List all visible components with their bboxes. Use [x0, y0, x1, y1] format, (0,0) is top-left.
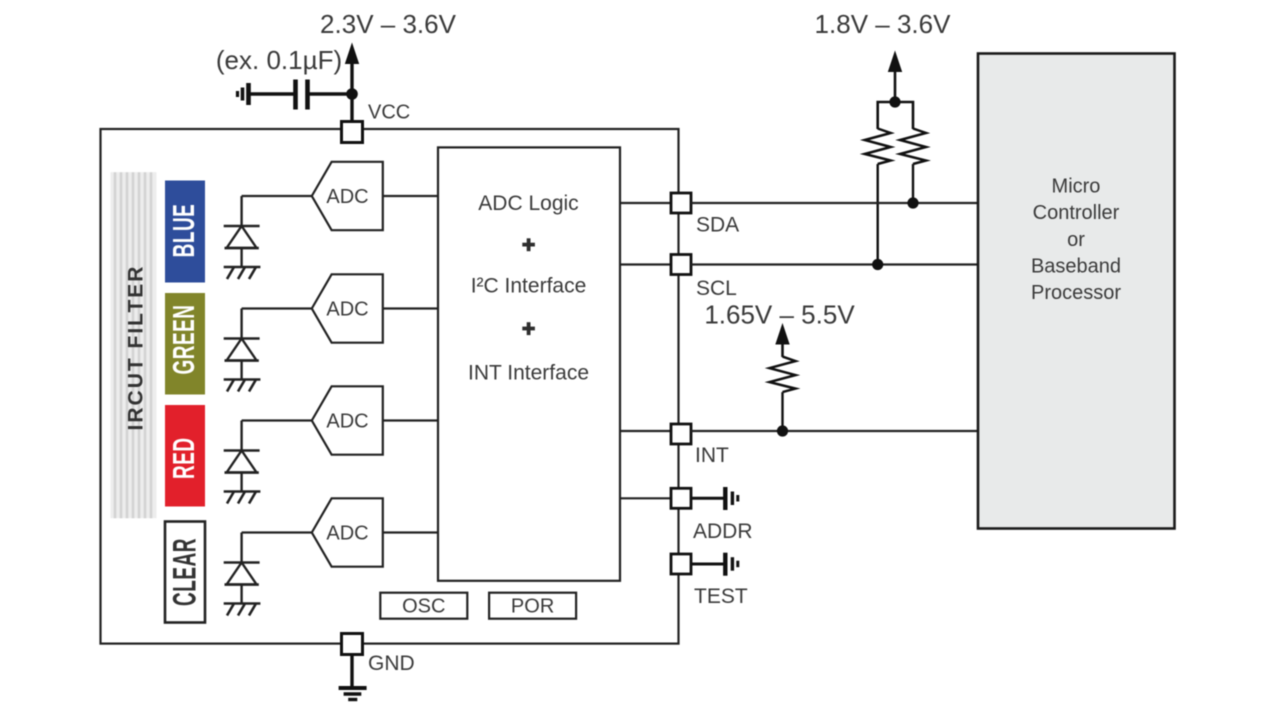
- INT pull-up supply arrow: [776, 325, 789, 358]
- VCC supply arrow: [346, 44, 359, 122]
- svg-text:ADC Logic: ADC Logic: [478, 192, 578, 215]
- svg-text:1.8V – 3.6V: 1.8V – 3.6V: [815, 9, 952, 39]
- GREEN filter box: [165, 293, 205, 395]
- svg-text:IRCUT FILTER: IRCUT FILTER: [125, 265, 148, 431]
- svg-text:Controller: Controller: [1033, 202, 1120, 224]
- wire (ADC2 to logic): [383, 307, 438, 309]
- wire (R1 to SCL line): [877, 164, 879, 265]
- wire SCL net: [691, 263, 978, 265]
- IRCUT filter striped box: [111, 172, 157, 518]
- INT pin: [671, 424, 691, 444]
- ground (green diode): [224, 380, 261, 392]
- wire (pull-up bracket): [878, 102, 913, 129]
- svg-text:GND: GND: [368, 652, 415, 675]
- SDA pin: [671, 193, 691, 213]
- resistor R1 (SCL pull-up): [865, 129, 891, 165]
- svg-text:or: or: [1067, 229, 1085, 251]
- wire (GND pin down): [350, 655, 353, 689]
- svg-text:RED: RED: [168, 437, 202, 479]
- ADC1 (blue): [312, 162, 383, 230]
- svg-text:ADDR: ADDR: [693, 520, 753, 543]
- wire (logic to INT pin): [620, 430, 671, 432]
- svg-text:GREEN: GREEN: [168, 304, 202, 374]
- wire (logic to SCL pin): [620, 263, 671, 265]
- svg-text:TEST: TEST: [694, 585, 748, 608]
- svg-text:SDA: SDA: [696, 214, 739, 237]
- BLUE filter box: [165, 181, 205, 283]
- wire (TEST pin to ground): [691, 563, 725, 566]
- VCC junction dot: [346, 88, 358, 100]
- microcontroller block U2: [978, 54, 1175, 529]
- wire (green diode to ADC2): [242, 307, 312, 309]
- wire (ADC4 to logic): [383, 531, 438, 533]
- ADDR pin: [671, 488, 691, 508]
- wire (logic to ADDR pin): [620, 497, 671, 499]
- svg-text:SCL: SCL: [696, 277, 737, 300]
- svg-text:INT Interface: INT Interface: [468, 362, 589, 385]
- ADC logic block U1: [438, 147, 620, 580]
- wire SDA net: [691, 202, 978, 204]
- wire (ADDR pin to ground): [691, 497, 725, 500]
- wire (red diode to ADC3): [242, 419, 312, 421]
- svg-text:ADC: ADC: [326, 298, 368, 320]
- ADC2 (green): [312, 274, 383, 342]
- junction dot (SCL/R1): [872, 259, 883, 270]
- svg-text:I²C Interface: I²C Interface: [471, 274, 587, 297]
- ADC3 (red): [312, 386, 383, 454]
- svg-text:ADC: ADC: [326, 410, 368, 432]
- VCC pin: [342, 122, 363, 143]
- wire (ADC1 to logic): [383, 195, 438, 197]
- photodiode D4 (clear): [224, 533, 260, 604]
- wire INT net: [691, 430, 978, 432]
- svg-text:2.3V – 3.6V: 2.3V – 3.6V: [320, 9, 457, 39]
- svg-text:INT: INT: [695, 444, 729, 467]
- svg-text:CLEAR: CLEAR: [166, 538, 203, 606]
- wire (clear diode to ADC4): [242, 531, 312, 533]
- TEST pin: [671, 554, 691, 574]
- GND pin: [342, 634, 363, 655]
- photodiode D3 (red): [224, 421, 260, 492]
- wire (blue diode to ADC1): [242, 195, 312, 197]
- photodiode D1 (blue): [224, 196, 260, 267]
- svg-text:ADC: ADC: [326, 186, 368, 208]
- svg-text:Micro: Micro: [1052, 176, 1101, 198]
- RED filter box: [165, 405, 205, 507]
- capacitor ground (sideways): [238, 83, 249, 105]
- ground (TEST, sideways): [725, 553, 738, 576]
- wire (R2 to SDA line): [912, 164, 914, 203]
- svg-text:ADC: ADC: [326, 522, 368, 544]
- svg-text:(ex. 0.1µF): (ex. 0.1µF): [216, 45, 342, 75]
- CLEAR filter box: [165, 522, 205, 623]
- svg-text:BLUE: BLUE: [168, 204, 202, 258]
- ground (GND): [339, 688, 367, 700]
- junction dot (pull-up top): [889, 96, 900, 107]
- junction dot (SDA/R2): [907, 197, 918, 208]
- svg-text:Processor: Processor: [1031, 282, 1121, 304]
- photodiode D2 (green): [224, 309, 260, 380]
- svg-text:OSC: OSC: [402, 596, 445, 618]
- ADC4 (clear): [312, 498, 383, 566]
- OSC block: [380, 593, 467, 619]
- ground (clear diode): [224, 604, 261, 616]
- ground (red diode): [224, 492, 261, 504]
- wire (R3 to INT line): [781, 392, 783, 431]
- ground (blue diode): [224, 267, 261, 279]
- wire (ADC3 to logic): [383, 419, 438, 421]
- resistor R3 (INT pull-up): [770, 357, 796, 393]
- svg-text:POR: POR: [511, 596, 554, 618]
- resistor R2 (SDA pull-up): [900, 129, 926, 165]
- junction dot (INT/R3): [777, 425, 788, 436]
- svg-text:Baseband: Baseband: [1031, 255, 1121, 277]
- POR block: [489, 593, 576, 619]
- wire (logic to SDA pin): [620, 202, 671, 204]
- ground (ADDR, sideways): [725, 487, 738, 510]
- pull-up supply arrow (SDA/SCL): [889, 52, 902, 102]
- svg-text:VCC: VCC: [368, 102, 410, 124]
- svg-text:1.65V – 5.5V: 1.65V – 5.5V: [704, 300, 855, 330]
- decoupling capacitor C1: [249, 80, 347, 110]
- chip outer box: [101, 129, 679, 644]
- SCL pin: [671, 255, 691, 275]
